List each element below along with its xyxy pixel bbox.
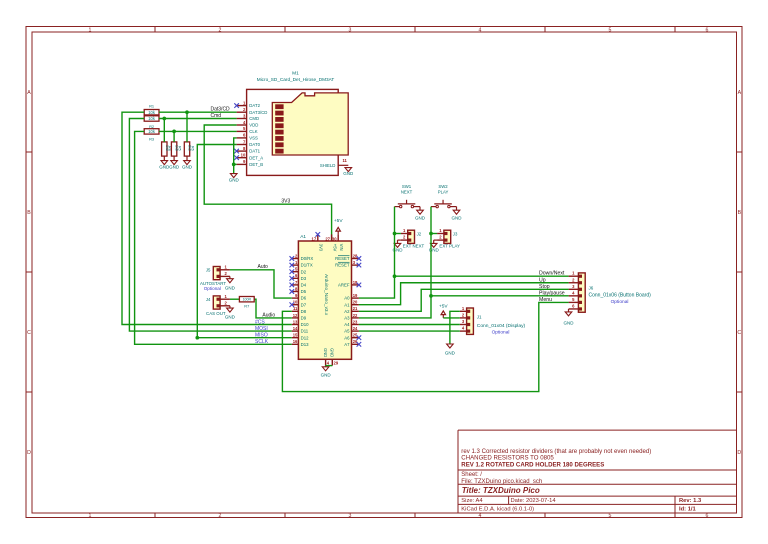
svg-text:D: D xyxy=(27,450,31,456)
svg-text:SW1: SW1 xyxy=(402,184,412,189)
svg-text:D7: D7 xyxy=(301,302,307,307)
svg-text:J3: J3 xyxy=(453,231,458,236)
svg-text:DET_A: DET_A xyxy=(249,155,263,160)
svg-text:M1: M1 xyxy=(292,71,299,77)
svg-text:GND: GND xyxy=(169,164,180,169)
svg-text:A: A xyxy=(738,90,742,96)
svg-text:D0/RX: D0/RX xyxy=(301,256,314,261)
svg-text:GND: GND xyxy=(323,348,328,357)
svg-text:D2: D2 xyxy=(301,269,307,274)
svg-text:Optional: Optional xyxy=(611,299,629,305)
svg-text:Cmd: Cmd xyxy=(211,113,222,119)
svg-text:VDD: VDD xyxy=(249,123,258,128)
svg-text:D13: D13 xyxy=(301,342,309,347)
svg-text:CMD: CMD xyxy=(249,116,259,121)
svg-text:J1: J1 xyxy=(477,314,482,319)
svg-text:GND: GND xyxy=(445,351,456,356)
svg-text:D3: D3 xyxy=(301,276,307,281)
svg-text:File: TZXDuino pico.kicad_sch: File: TZXDuino pico.kicad_sch xyxy=(461,479,542,485)
svg-text:Stop: Stop xyxy=(539,284,550,290)
svg-text:KiCad E.D.A. kicad (6.0.1-0): KiCad E.D.A. kicad (6.0.1-0) xyxy=(461,506,534,512)
svg-text:DAT0: DAT0 xyxy=(249,142,260,147)
svg-text:SHIELD: SHIELD xyxy=(320,163,336,168)
svg-text:GND: GND xyxy=(415,216,426,221)
svg-text:Sheet: /: Sheet: / xyxy=(461,472,482,478)
svg-text:24: 24 xyxy=(353,326,358,331)
svg-text:5: 5 xyxy=(609,513,612,519)
svg-text:A: A xyxy=(27,90,31,96)
svg-text:R3: R3 xyxy=(149,137,154,142)
svg-text:10: 10 xyxy=(241,153,246,158)
svg-text:3: 3 xyxy=(349,27,352,33)
svg-text:GND: GND xyxy=(182,164,193,169)
svg-text:DET_B: DET_B xyxy=(249,162,263,167)
svg-text:23: 23 xyxy=(353,319,358,324)
svg-text:Up: Up xyxy=(539,277,546,283)
svg-text:Date: 2023-07-14: Date: 2023-07-14 xyxy=(511,498,557,504)
svg-text:Optional: Optional xyxy=(204,286,221,291)
svg-text:Down/Next: Down/Next xyxy=(539,271,565,277)
svg-text:J4: J4 xyxy=(206,297,211,302)
svg-text:GND: GND xyxy=(225,315,236,320)
svg-text:Conn_01x06 (Button Board): Conn_01x06 (Button Board) xyxy=(589,293,652,299)
svg-text:16: 16 xyxy=(293,339,298,344)
svg-text:30: 30 xyxy=(332,236,337,241)
svg-text:VSS: VSS xyxy=(249,136,258,141)
svg-text:D12: D12 xyxy=(301,335,309,340)
svg-text:+5V: +5V xyxy=(334,218,343,224)
svg-text:3k3: 3k3 xyxy=(188,145,192,151)
svg-text:GND: GND xyxy=(229,178,240,183)
svg-text:Id: 1/1: Id: 1/1 xyxy=(679,506,697,512)
svg-text:Auto: Auto xyxy=(258,264,269,270)
svg-text:15: 15 xyxy=(293,333,298,338)
svg-text:5: 5 xyxy=(609,27,612,33)
svg-text:21: 21 xyxy=(353,306,358,311)
svg-text:RESET: RESET xyxy=(335,256,350,261)
svg-text:Optional: Optional xyxy=(492,329,510,335)
svg-text:J5: J5 xyxy=(206,268,211,273)
svg-text:3: 3 xyxy=(349,513,352,519)
svg-text:Size: A4: Size: A4 xyxy=(461,498,483,504)
svg-text:Audio: Audio xyxy=(262,312,275,318)
svg-text:AREF: AREF xyxy=(338,283,350,288)
svg-text:CLK: CLK xyxy=(249,129,257,134)
svg-text:A6: A6 xyxy=(344,335,350,340)
svg-text:Play/pause: Play/pause xyxy=(539,290,565,296)
svg-text:17: 17 xyxy=(312,236,317,241)
svg-text:A1: A1 xyxy=(344,302,350,307)
svg-text:6: 6 xyxy=(706,513,709,519)
svg-text:10k: 10k xyxy=(148,129,156,134)
svg-text:D1/TX: D1/TX xyxy=(301,263,313,268)
svg-text:Dat3/CD: Dat3/CD xyxy=(211,107,231,113)
svg-text:B: B xyxy=(738,210,742,216)
svg-text:A5: A5 xyxy=(344,329,350,334)
svg-text:4: 4 xyxy=(479,513,482,519)
svg-text:18: 18 xyxy=(353,280,358,285)
svg-text:DAT3/CD: DAT3/CD xyxy=(249,110,267,115)
svg-text:DAT1: DAT1 xyxy=(249,149,260,154)
svg-text:2: 2 xyxy=(219,513,222,519)
svg-text:MISO: MISO xyxy=(255,333,268,339)
svg-text:D9: D9 xyxy=(301,316,307,321)
svg-text:D8: D8 xyxy=(301,309,307,314)
svg-text:SCLK: SCLK xyxy=(255,339,269,345)
svg-text:#CS: #CS xyxy=(255,319,265,325)
svg-text:D4: D4 xyxy=(301,283,307,288)
svg-text:1: 1 xyxy=(89,513,92,519)
svg-text:14: 14 xyxy=(293,326,298,331)
svg-text:28: 28 xyxy=(353,253,358,258)
svg-text:3V3: 3V3 xyxy=(319,244,324,252)
svg-text:12: 12 xyxy=(293,313,298,318)
svg-text:EXT PLAY: EXT PLAY xyxy=(439,244,460,249)
svg-text:19: 19 xyxy=(353,293,358,298)
svg-text:Micro_SD_Card_Det_Hirose_DM3AT: Micro_SD_Card_Det_Hirose_DM3AT xyxy=(257,77,335,82)
svg-text:DAT2: DAT2 xyxy=(249,103,260,108)
svg-text:GND: GND xyxy=(321,372,332,377)
svg-text:Menu: Menu xyxy=(539,297,552,303)
svg-text:6: 6 xyxy=(706,27,709,33)
svg-text:GND: GND xyxy=(225,285,236,290)
svg-text:PLAY: PLAY xyxy=(438,190,449,195)
svg-text:29: 29 xyxy=(334,360,339,365)
svg-text:C: C xyxy=(737,330,741,336)
svg-text:A0: A0 xyxy=(344,296,350,301)
svg-text:D: D xyxy=(737,450,741,456)
svg-text:B: B xyxy=(27,210,31,216)
svg-text:MOSI: MOSI xyxy=(255,326,268,332)
svg-text:A1: A1 xyxy=(300,234,306,240)
svg-text:1k8: 1k8 xyxy=(165,145,169,151)
svg-text:GND: GND xyxy=(343,171,354,176)
svg-text:EXT NEXT: EXT NEXT xyxy=(403,244,425,249)
svg-text:1k8: 1k8 xyxy=(175,145,179,151)
svg-text:J2: J2 xyxy=(417,231,422,236)
svg-text:J6: J6 xyxy=(589,286,594,291)
svg-text:SW2: SW2 xyxy=(438,184,448,189)
svg-text:10k: 10k xyxy=(148,116,156,121)
svg-text:D6: D6 xyxy=(301,296,307,301)
svg-text:Title: TZXDuino Pico: Title: TZXDuino Pico xyxy=(462,486,540,495)
svg-text:CAS OUT: CAS OUT xyxy=(206,311,226,316)
svg-text:GND: GND xyxy=(330,348,335,357)
svg-text:GND: GND xyxy=(564,321,575,326)
svg-text:D5: D5 xyxy=(301,289,307,294)
svg-text:Arduino_Nano_v3.x: Arduino_Nano_v3.x xyxy=(324,274,329,316)
svg-text:GND: GND xyxy=(452,216,463,221)
svg-text:3V3: 3V3 xyxy=(281,199,290,205)
svg-text:22: 22 xyxy=(353,313,358,318)
svg-text:11: 11 xyxy=(342,158,347,163)
svg-text:25: 25 xyxy=(353,333,358,338)
svg-text:R7: R7 xyxy=(244,304,249,309)
svg-text:REV 1.2 ROTATED CARD HOLDER 18: REV 1.2 ROTATED CARD HOLDER 180 DEGREES xyxy=(461,462,604,469)
svg-text:+5V: +5V xyxy=(332,244,337,252)
svg-text:13: 13 xyxy=(293,319,298,324)
svg-text:RESET: RESET xyxy=(335,263,350,268)
svg-text:D11: D11 xyxy=(301,329,309,334)
svg-text:27: 27 xyxy=(325,236,330,241)
svg-text:+5V: +5V xyxy=(439,303,448,309)
svg-text:10k: 10k xyxy=(148,110,156,115)
svg-text:Conn_01x04 (Display): Conn_01x04 (Display) xyxy=(477,323,526,329)
svg-text:20: 20 xyxy=(353,300,358,305)
svg-text:C: C xyxy=(27,330,31,336)
svg-text:R1: R1 xyxy=(149,104,154,109)
svg-text:A3: A3 xyxy=(344,316,350,321)
svg-text:VIN: VIN xyxy=(339,244,344,251)
svg-text:2: 2 xyxy=(219,27,222,33)
svg-text:D10: D10 xyxy=(301,322,309,327)
svg-text:A4: A4 xyxy=(344,322,350,327)
svg-text:NEXT: NEXT xyxy=(401,190,413,195)
svg-text:1: 1 xyxy=(89,27,92,33)
svg-text:Rev: 1.3: Rev: 1.3 xyxy=(679,498,702,504)
svg-text:A7: A7 xyxy=(344,342,350,347)
svg-text:A2: A2 xyxy=(344,309,350,314)
svg-text:10: 10 xyxy=(293,300,298,305)
svg-text:4: 4 xyxy=(479,27,482,33)
svg-text:100R: 100R xyxy=(243,298,252,302)
